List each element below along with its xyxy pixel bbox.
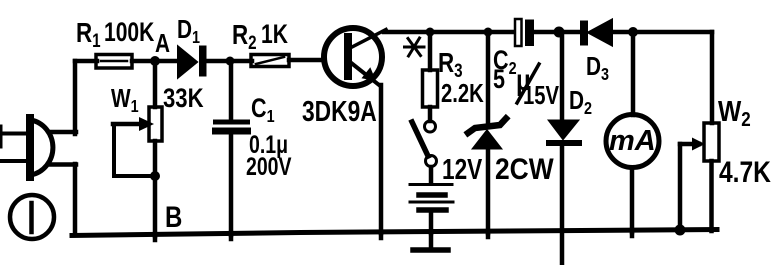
wire D3 to corner bbox=[612, 30, 712, 35]
wire plug bottom stub bbox=[51, 162, 76, 167]
svg-text:W2: W2 bbox=[718, 95, 751, 130]
diode D3 bbox=[580, 20, 612, 46]
svg-text:B: B bbox=[165, 199, 182, 233]
battery 12V bbox=[410, 167, 453, 233]
diode D1 bbox=[178, 46, 207, 78]
wire R1 to D1 bbox=[132, 59, 178, 64]
rail ticks bbox=[155, 230, 632, 240]
svg-text:5: 5 bbox=[493, 65, 505, 95]
svg-text:12V: 12V bbox=[442, 152, 483, 185]
wire left vertical lower bbox=[73, 164, 78, 235]
svg-text:15V: 15V bbox=[523, 81, 559, 110]
wire plug top stub bbox=[52, 130, 76, 135]
potentiometer W2 bbox=[675, 123, 720, 236]
figure number 1 bbox=[10, 195, 54, 239]
ground bbox=[413, 233, 448, 250]
svg-text:R3: R3 bbox=[438, 48, 463, 82]
resistor R3 bbox=[423, 32, 438, 121]
wire top rail left bbox=[75, 59, 97, 64]
asterisk bbox=[405, 38, 425, 56]
switch K bbox=[412, 121, 437, 167]
bottom rail wire bbox=[72, 230, 717, 236]
svg-text:D3: D3 bbox=[586, 52, 609, 85]
wire left vertical upper bbox=[73, 61, 78, 134]
svg-text:2CW: 2CW bbox=[495, 151, 554, 185]
node meter junction bbox=[628, 27, 638, 37]
svg-text:3DK9A: 3DK9A bbox=[302, 97, 377, 128]
resistor R2 bbox=[251, 55, 289, 67]
svg-text:R1: R1 bbox=[76, 18, 101, 52]
wire right vertical bbox=[710, 32, 715, 123]
label 5u/15V bbox=[493, 62, 559, 109]
svg-text:A: A bbox=[155, 29, 170, 58]
svg-text:D2: D2 bbox=[569, 86, 592, 119]
svg-text:200V: 200V bbox=[246, 153, 292, 181]
wire D1 to R2 bbox=[206, 59, 252, 64]
wire emitter down bbox=[379, 85, 384, 233]
svg-text:C1: C1 bbox=[251, 94, 275, 127]
svg-text:W1: W1 bbox=[111, 84, 139, 117]
svg-text:33K: 33K bbox=[163, 84, 204, 114]
svg-text:1K: 1K bbox=[261, 20, 288, 50]
capacitor C1 bbox=[212, 61, 251, 235]
node zener junction bbox=[484, 28, 493, 37]
node A bbox=[150, 29, 170, 66]
capacitor C2 bbox=[515, 19, 534, 46]
svg-text:4.7K: 4.7K bbox=[719, 155, 771, 189]
svg-text:D1: D1 bbox=[177, 15, 200, 48]
wire R2 to base bbox=[289, 58, 324, 63]
zener diode 2CW bbox=[468, 32, 506, 233]
transistor Q1 3DK9A bbox=[324, 28, 386, 86]
meter mA bbox=[606, 32, 659, 232]
svg-text:100K: 100K bbox=[104, 18, 155, 48]
node C1 junction bbox=[226, 57, 235, 66]
svg-text:R2: R2 bbox=[232, 20, 257, 54]
node R3 junction bbox=[426, 28, 435, 37]
svg-text:2.2K: 2.2K bbox=[441, 79, 484, 108]
node D2 junction bbox=[554, 27, 565, 38]
wire collector rail bbox=[384, 30, 515, 35]
svg-text:mA: mA bbox=[609, 125, 656, 157]
plug P bbox=[1, 118, 53, 177]
wire C2 to D3 bbox=[534, 30, 581, 35]
resistor R1 bbox=[96, 55, 132, 69]
potentiometer W1 bbox=[113, 61, 162, 236]
diode D2 bbox=[546, 32, 582, 265]
